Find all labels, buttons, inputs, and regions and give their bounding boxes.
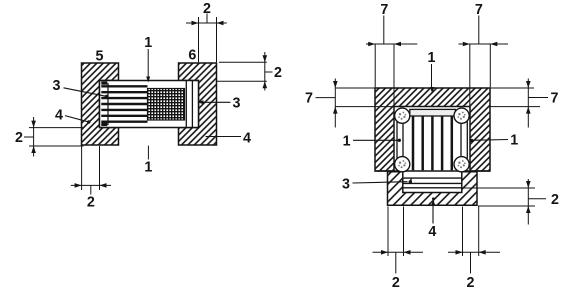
lower block 4 bbox=[388, 172, 478, 206]
svg-text:7: 7 bbox=[305, 91, 313, 107]
dimension 2 bottom-left bbox=[71, 146, 111, 211]
dimension 7 top-left bbox=[366, 2, 417, 109]
left tie rod bbox=[397, 122, 403, 159]
svg-text:4: 4 bbox=[428, 224, 436, 240]
top clamp bar bbox=[410, 109, 456, 116]
dimension 7 right bbox=[489, 79, 559, 128]
main frame block right figure bbox=[375, 88, 490, 171]
svg-text:2: 2 bbox=[274, 65, 282, 81]
dimension 7 left bbox=[305, 79, 393, 128]
label 1 left right figure bbox=[343, 133, 401, 149]
dimension 2 right side right figure bbox=[462, 179, 559, 225]
label 1 top center right figure bbox=[428, 50, 436, 93]
bobbin slat end caps bbox=[101, 81, 107, 126]
svg-text:2: 2 bbox=[467, 275, 475, 291]
leader label 4 right bbox=[206, 131, 252, 147]
dimension 2 top-right bbox=[186, 1, 227, 62]
leader label 4 left bbox=[55, 107, 90, 123]
svg-text:1: 1 bbox=[144, 35, 152, 51]
cross-hatched core block bbox=[148, 89, 185, 121]
screw head circles bbox=[395, 108, 470, 172]
left yoke block 5 bbox=[82, 63, 119, 145]
svg-text:1: 1 bbox=[510, 133, 518, 149]
clamp plate lines 3 bbox=[186, 81, 192, 128]
strip plate lines in lower block bbox=[404, 178, 462, 188]
svg-text:1: 1 bbox=[144, 160, 152, 176]
label 1 right right figure bbox=[470, 133, 518, 149]
svg-text:2: 2 bbox=[551, 192, 559, 208]
svg-text:6: 6 bbox=[188, 47, 196, 63]
label 5 bbox=[96, 48, 104, 64]
dimension 2 bottom-right right figure bbox=[448, 207, 500, 292]
svg-text:3: 3 bbox=[342, 176, 350, 192]
label 6 bbox=[188, 47, 196, 63]
label 4 leader right figure bbox=[428, 197, 436, 240]
svg-text:5: 5 bbox=[96, 48, 104, 64]
label 3 leader right figure bbox=[342, 176, 412, 192]
svg-text:2: 2 bbox=[15, 130, 23, 146]
svg-text:3: 3 bbox=[53, 78, 61, 94]
dimension 2 bottom-left right figure bbox=[373, 207, 424, 292]
dimension 7 top-right bbox=[459, 2, 509, 109]
centerline bottom label 1 bbox=[144, 146, 152, 176]
coil winding lines bbox=[101, 86, 147, 121]
svg-text:7: 7 bbox=[380, 2, 388, 18]
lamination stack bars bbox=[413, 116, 452, 170]
svg-text:3: 3 bbox=[233, 96, 241, 112]
svg-text:1: 1 bbox=[343, 133, 351, 149]
coil body outline bbox=[100, 81, 199, 128]
svg-text:2: 2 bbox=[87, 195, 95, 211]
right yoke block 6 bbox=[179, 63, 217, 145]
leader label 3 left bbox=[53, 78, 109, 98]
svg-text:4: 4 bbox=[55, 107, 63, 123]
dimension 2 right side bbox=[217, 52, 282, 91]
bobbin flange line bbox=[107, 83, 109, 125]
right tie rod bbox=[461, 122, 467, 159]
svg-text:2: 2 bbox=[392, 275, 400, 291]
svg-text:1: 1 bbox=[428, 50, 436, 66]
svg-text:7: 7 bbox=[551, 91, 559, 107]
leader label 3 right bbox=[198, 96, 241, 112]
centerline top label 1 bbox=[144, 35, 152, 82]
dimension 2 left side bbox=[15, 117, 84, 157]
svg-text:4: 4 bbox=[243, 131, 251, 147]
